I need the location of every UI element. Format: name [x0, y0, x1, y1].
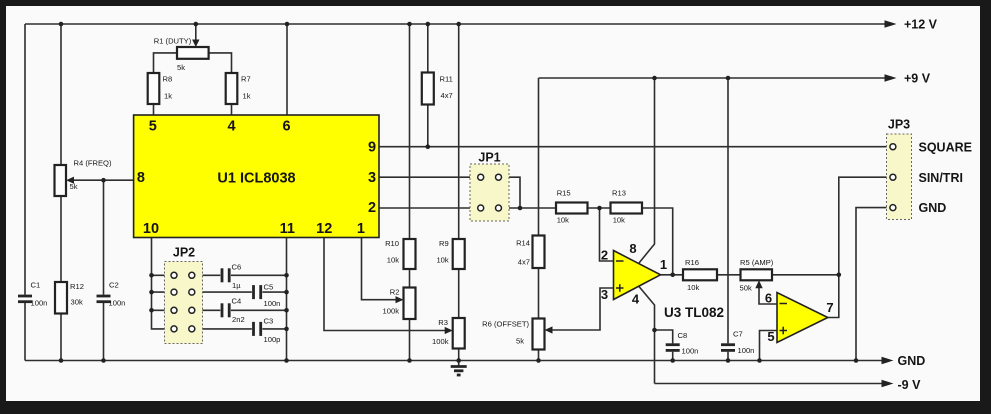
svg-text:R11: R11 [440, 75, 453, 84]
svg-text:R14: R14 [516, 239, 530, 248]
svg-text:5k: 5k [70, 182, 78, 191]
svg-text:R16: R16 [685, 258, 699, 267]
svg-text:10k: 10k [557, 216, 569, 225]
svg-text:R5 (AMP): R5 (AMP) [740, 258, 774, 267]
svg-text:C5: C5 [264, 283, 274, 292]
svg-text:-9 V: -9 V [898, 378, 922, 392]
svg-text:R15: R15 [557, 189, 571, 198]
svg-text:C4: C4 [232, 297, 242, 306]
svg-text:6: 6 [283, 119, 291, 135]
svg-text:R7: R7 [241, 75, 251, 84]
svg-text:R8: R8 [163, 75, 173, 84]
svg-text:C8: C8 [678, 331, 688, 340]
svg-text:U1 ICL8038: U1 ICL8038 [217, 170, 295, 186]
svg-text:4x7: 4x7 [518, 258, 530, 267]
svg-text:7: 7 [826, 300, 833, 315]
svg-text:GND: GND [919, 201, 947, 215]
svg-text:1µ: 1µ [232, 281, 241, 290]
svg-text:100k: 100k [432, 337, 449, 346]
svg-text:100n: 100n [264, 299, 281, 308]
svg-text:JP3: JP3 [888, 117, 910, 131]
svg-text:R13: R13 [612, 189, 626, 198]
svg-text:+9 V: +9 V [904, 72, 931, 86]
svg-text:8: 8 [629, 241, 636, 256]
svg-text:C6: C6 [232, 262, 242, 271]
svg-text:5: 5 [767, 329, 774, 344]
svg-text:10k: 10k [687, 283, 699, 292]
svg-text:5: 5 [149, 119, 157, 135]
svg-text:3: 3 [601, 287, 608, 302]
svg-text:50k: 50k [740, 283, 752, 292]
svg-text:100n: 100n [682, 347, 699, 356]
svg-text:10: 10 [143, 221, 159, 237]
svg-text:1: 1 [660, 257, 667, 272]
svg-text:U3 TL082: U3 TL082 [664, 305, 724, 320]
svg-text:30k: 30k [71, 297, 83, 306]
svg-text:SQUARE: SQUARE [919, 140, 972, 154]
svg-text:+12 V: +12 V [904, 18, 938, 32]
svg-text:100k: 100k [383, 307, 400, 316]
svg-text:GND: GND [898, 354, 926, 368]
svg-text:100n: 100n [738, 346, 755, 355]
svg-text:5k: 5k [516, 336, 524, 345]
svg-text:5k: 5k [177, 63, 185, 72]
svg-text:2: 2 [601, 247, 608, 262]
svg-text:R10: R10 [385, 239, 399, 248]
svg-text:10k: 10k [387, 256, 399, 265]
svg-text:1: 1 [357, 221, 365, 237]
svg-text:4x7: 4x7 [441, 91, 453, 100]
svg-text:4: 4 [632, 291, 640, 306]
svg-text:9: 9 [368, 140, 376, 156]
svg-text:R2: R2 [390, 287, 400, 296]
svg-text:100p: 100p [264, 335, 281, 344]
svg-text:100n: 100n [109, 299, 126, 308]
svg-text:8: 8 [137, 170, 145, 186]
svg-text:2: 2 [368, 200, 376, 216]
svg-text:R3: R3 [438, 318, 448, 327]
svg-text:100n: 100n [31, 299, 48, 308]
svg-text:JP2: JP2 [173, 246, 195, 260]
svg-text:SIN/TRI: SIN/TRI [919, 171, 963, 185]
svg-text:6: 6 [765, 291, 772, 306]
svg-text:12: 12 [316, 221, 332, 237]
svg-text:C7: C7 [733, 329, 743, 338]
svg-text:R6 (OFFSET): R6 (OFFSET) [482, 319, 529, 328]
svg-text:1k: 1k [164, 92, 172, 101]
svg-text:C2: C2 [109, 281, 119, 290]
svg-text:R12: R12 [70, 282, 84, 291]
svg-text:2n2: 2n2 [232, 315, 245, 324]
svg-text:10k: 10k [613, 216, 625, 225]
svg-text:R4 (FREQ): R4 (FREQ) [74, 158, 112, 167]
svg-text:1k: 1k [243, 92, 251, 101]
svg-text:JP1: JP1 [478, 150, 500, 164]
svg-text:R9: R9 [439, 239, 449, 248]
svg-text:C3: C3 [264, 317, 274, 326]
svg-text:3: 3 [368, 170, 376, 186]
svg-text:C1: C1 [31, 281, 41, 290]
svg-text:11: 11 [280, 221, 295, 237]
svg-text:10k: 10k [436, 256, 448, 265]
svg-text:4: 4 [227, 119, 235, 135]
svg-text:R1 (DUTY): R1 (DUTY) [154, 36, 192, 45]
